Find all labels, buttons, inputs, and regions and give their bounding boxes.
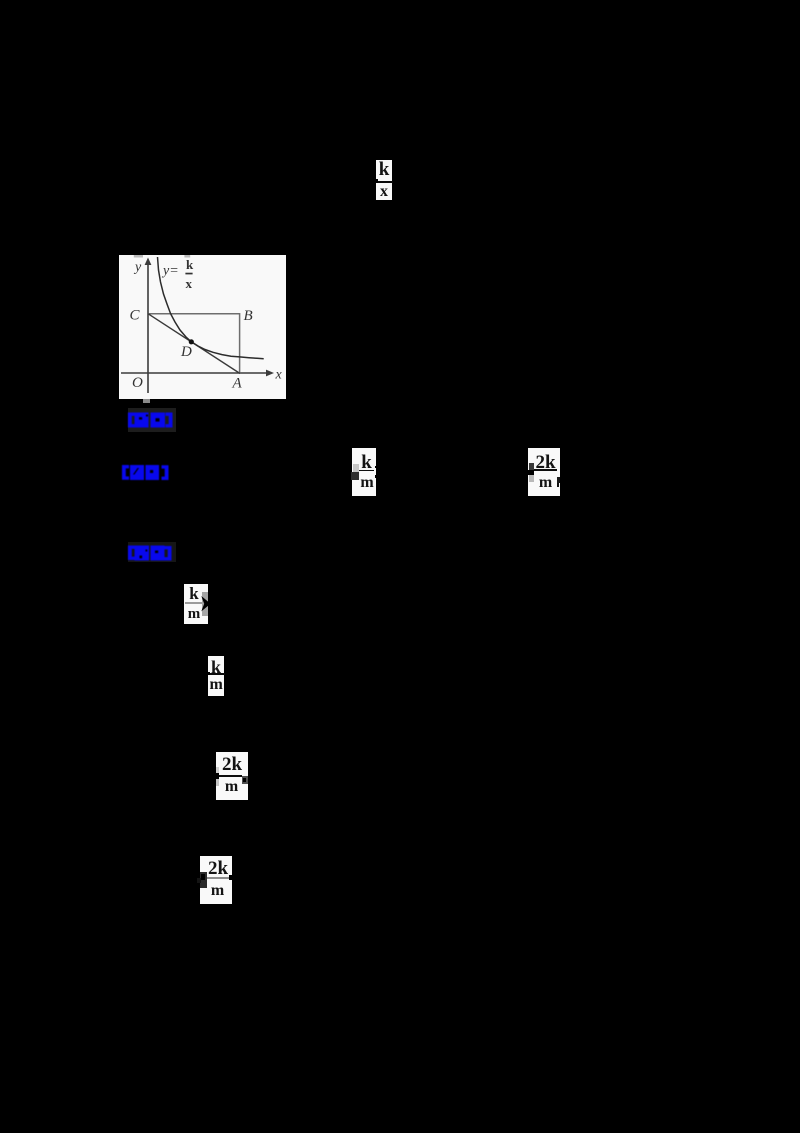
x-axis (121, 372, 270, 374)
gray tabs on image edges (134, 255, 143, 258)
blue label 1 (kaodian) (128, 408, 176, 432)
fraction 2k/m with comma (216, 752, 248, 800)
diagonal CA (148, 314, 240, 374)
fraction 2k/m (last) (200, 856, 232, 904)
svg-text:B: B (244, 308, 253, 324)
rectangle CB BA (148, 314, 240, 373)
svg-text:k: k (186, 257, 194, 272)
fraction 2k/m (right of k/m) (528, 448, 560, 496)
blue label 2 (fenxi) (122, 464, 169, 481)
svg-text:O: O (132, 375, 143, 391)
svg-text:y=: y= (161, 264, 179, 279)
fraction k/m (after label 2) (352, 448, 377, 497)
fraction k/x (top equation image) (376, 160, 392, 181)
fraction k/m (stacked boxes) (208, 656, 224, 673)
graph image: hyperbola y=k/x with rectangle OABC and tangent CA (119, 255, 286, 399)
blue label 3 (jieda) (128, 542, 176, 562)
svg-text:y: y (133, 260, 142, 275)
svg-text:C: C (130, 308, 141, 324)
hyperbola curve (158, 257, 264, 359)
y-axis (147, 262, 149, 393)
point D (189, 339, 194, 344)
svg-text:x: x (186, 276, 193, 291)
svg-text:x: x (275, 368, 283, 383)
svg-text:D: D (180, 344, 192, 360)
gray tab below graph (143, 399, 150, 403)
svg-text:A: A (232, 376, 243, 392)
fraction k/m with cursor arrow (184, 584, 209, 624)
